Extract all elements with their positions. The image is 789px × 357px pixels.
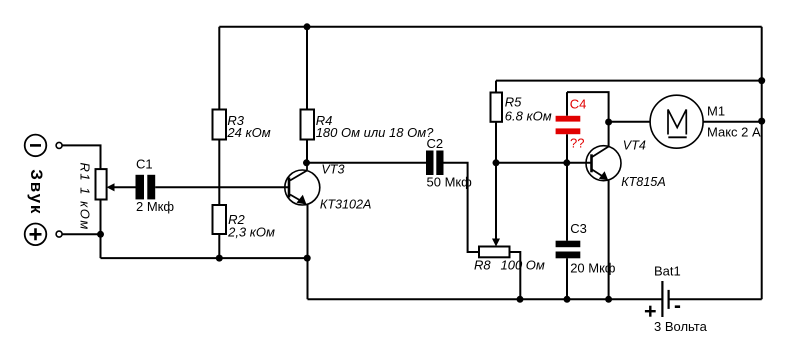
svg-text:100 Ом: 100 Ом: [501, 258, 545, 273]
svg-text:50 Мкф: 50 Мкф: [427, 175, 473, 190]
svg-text:VT3: VT3: [321, 163, 344, 177]
svg-text:C1: C1: [136, 157, 153, 172]
svg-text:R1 1 кОм: R1 1 кОм: [78, 163, 93, 231]
svg-text:R5: R5: [505, 95, 522, 110]
svg-text:??: ??: [570, 136, 584, 151]
svg-text:КТ3102А: КТ3102А: [320, 198, 372, 212]
svg-text:VT4: VT4: [623, 138, 646, 152]
svg-text:6.8 кОм: 6.8 кОм: [505, 109, 552, 124]
svg-text:Макс 2 А: Макс 2 А: [707, 125, 761, 140]
svg-text:КТ815А: КТ815А: [621, 175, 666, 189]
svg-text:C3: C3: [570, 221, 587, 236]
svg-text:24 кОм: 24 кОм: [226, 125, 270, 140]
svg-text:2 Мкф: 2 Мкф: [136, 199, 174, 214]
svg-text:180 Ом или 18 Ом?: 180 Ом или 18 Ом?: [316, 125, 434, 140]
svg-text:Bat1: Bat1: [654, 264, 681, 279]
svg-text:Звук: Звук: [27, 169, 46, 215]
svg-text:2,3 кОм: 2,3 кОм: [227, 225, 275, 240]
svg-text:R8: R8: [474, 258, 491, 273]
svg-text:20 Мкф: 20 Мкф: [570, 260, 616, 275]
svg-text:C4: C4: [570, 96, 587, 111]
svg-text:3 Вольта: 3 Вольта: [654, 319, 708, 334]
svg-text:M1: M1: [707, 103, 725, 118]
